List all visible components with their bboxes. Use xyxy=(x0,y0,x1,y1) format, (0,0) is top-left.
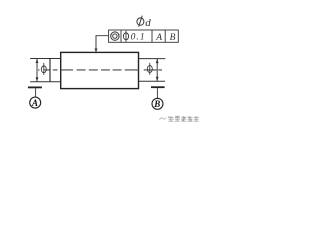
datum A stem xyxy=(35,88,37,97)
right journal top edge / extension line xyxy=(139,58,166,60)
main cylinder body outline xyxy=(61,52,139,88)
watermark logo xyxy=(160,118,167,120)
svg-text:B: B xyxy=(153,99,160,109)
left diameter dimension line with arrows xyxy=(36,59,39,82)
dimension label Phi d above frame xyxy=(137,16,151,29)
svg-text:B: B xyxy=(170,33,176,43)
feature control frame box xyxy=(109,30,179,42)
right phi symbol on dimension xyxy=(147,63,152,75)
left journal top edge / extension line xyxy=(30,58,61,60)
datum B circle xyxy=(152,98,163,109)
concentricity symbol xyxy=(111,32,119,40)
right diameter dimension line with arrows xyxy=(156,59,159,82)
svg-text:A: A xyxy=(155,33,162,43)
svg-text:0.1: 0.1 xyxy=(131,33,146,43)
tolerance phi symbol xyxy=(123,31,128,42)
svg-text:A: A xyxy=(31,98,38,108)
frame cell separators xyxy=(121,30,165,42)
datum B stem xyxy=(156,88,158,98)
centerline (dashed axis) xyxy=(38,69,162,71)
datum A target bar xyxy=(28,86,42,88)
left journal end face xyxy=(49,59,51,82)
left journal bottom edge / extension line xyxy=(30,81,61,83)
watermark text strokes xyxy=(168,116,198,121)
svg-text:d: d xyxy=(145,17,151,29)
right journal bottom edge / extension line xyxy=(139,80,166,82)
datum B target bar xyxy=(151,86,165,88)
leader from feature control frame to cylinder xyxy=(95,36,109,53)
datum A circle xyxy=(30,97,41,108)
left phi symbol on dimension xyxy=(41,63,46,75)
